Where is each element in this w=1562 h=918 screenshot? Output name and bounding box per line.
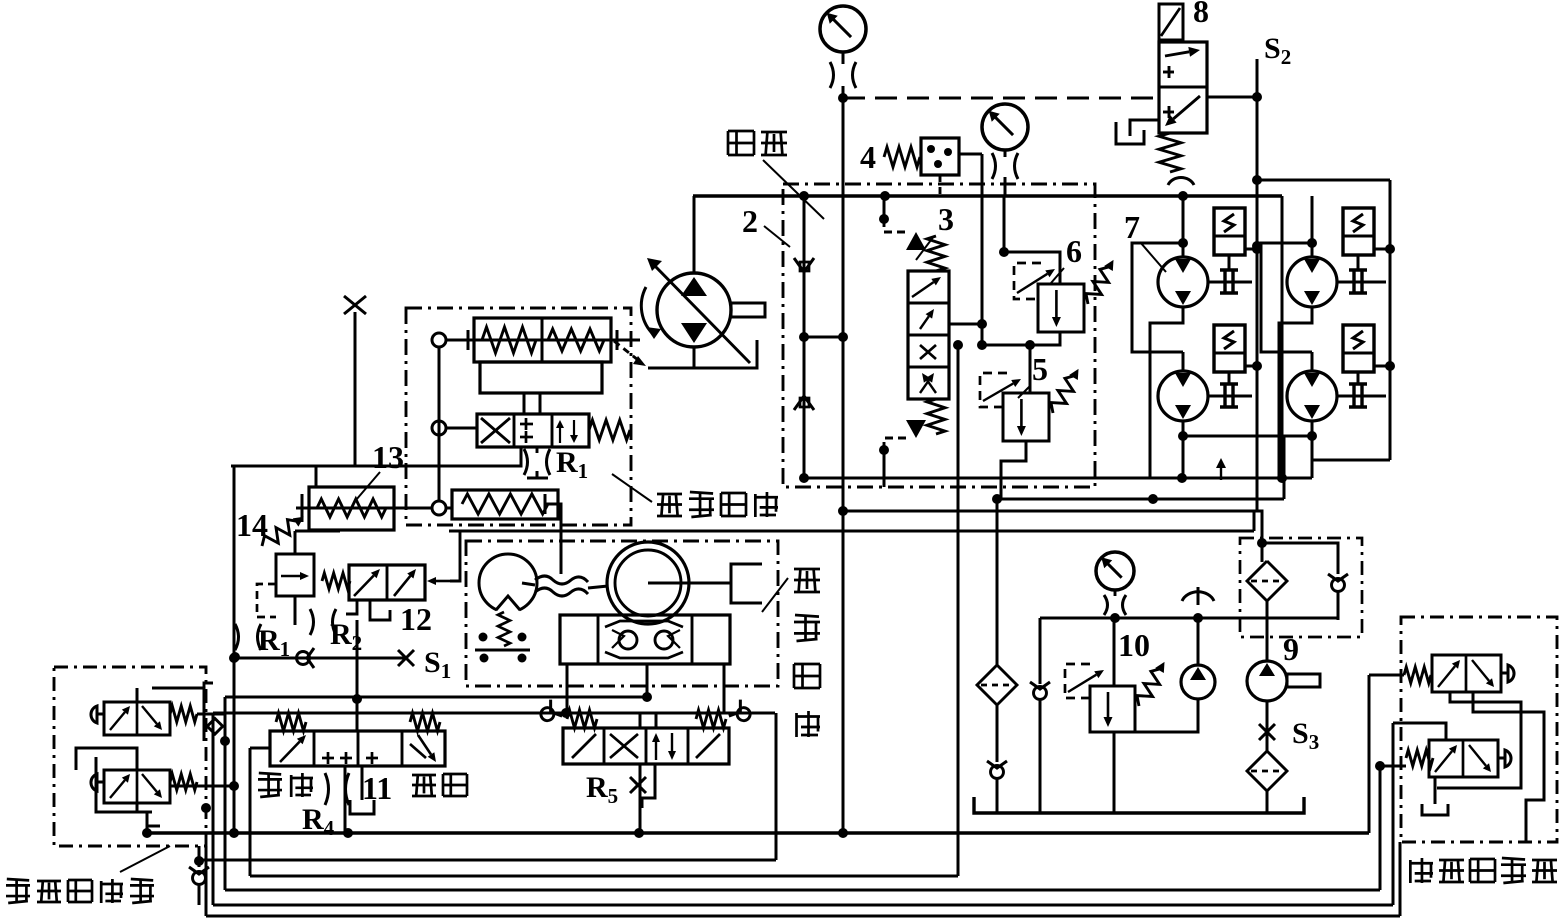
valve 3 pilot top arrow	[906, 232, 926, 250]
wire x=958 long drop	[957, 345, 960, 876]
svg-text:2: 2	[742, 203, 758, 239]
right motor pair bypass loop	[1261, 243, 1312, 352]
left box check diamond	[207, 719, 223, 735]
check valve line x=804 upper check	[803, 196, 806, 480]
wire right bus x=1390 down	[1389, 232, 1392, 460]
servo pump circle	[479, 554, 537, 612]
wire valve 6 bottom	[1030, 332, 1060, 345]
pivot link line	[439, 339, 640, 342]
tank line	[974, 797, 1304, 813]
left brake bars y282	[1228, 255, 1231, 270]
left motor B	[1158, 371, 1208, 421]
wire y=499 bus	[997, 498, 1284, 501]
valve 8 breather	[1168, 177, 1194, 185]
right brake bars y282	[1357, 255, 1360, 270]
right valve 1 body	[1432, 655, 1501, 692]
valve 3 bottom spring	[927, 399, 945, 434]
wire filter to pump9	[1266, 601, 1269, 661]
svg-text:10: 10	[1118, 627, 1150, 663]
wire pilot line y=697	[225, 696, 647, 699]
wire bus y=833	[148, 831, 1369, 834]
wire branch x=1282 down	[1281, 196, 1284, 478]
wire 1254-1262 jog to filter	[1253, 511, 1256, 531]
pressure switch 4 body	[921, 138, 959, 175]
wire right bus corner	[1312, 460, 1390, 478]
R5 drain bracket	[642, 764, 668, 813]
right motor B	[1287, 371, 1337, 421]
left valve 2 spring	[170, 774, 197, 790]
right valve 2 frame	[1393, 723, 1446, 740]
wires left box to right	[197, 713, 225, 716]
left motor line y396	[1208, 395, 1252, 398]
check symbol right on y=713	[729, 700, 755, 726]
relief valve 6 pilot bracket	[1014, 263, 1041, 299]
shuttle valve assembly	[560, 615, 730, 664]
right brake bars y396	[1357, 372, 1360, 384]
wire aux pump down	[1114, 699, 1198, 732]
pilot dashed line to valve 8	[843, 97, 1158, 100]
left motor B top stem	[1182, 352, 1185, 371]
CJK label zuoyekong anniu (left button)	[15, 879, 18, 903]
squeeze R4	[325, 773, 329, 805]
left valve 2 wires	[137, 803, 147, 812]
wire pivot to feedback	[446, 507, 452, 510]
check valve lower on 997	[987, 761, 1007, 779]
left valve 2 body	[104, 770, 170, 803]
wire S2 vertical	[1256, 59, 1259, 511]
wire x=213 riser	[212, 713, 215, 905]
CJK label fa-zu (valve group)	[727, 131, 730, 155]
wire S2 top-right branch	[1257, 179, 1390, 182]
svg-text:6: 6	[1066, 233, 1082, 269]
wire bus y=860	[200, 859, 776, 862]
operating mechanism enclosure	[466, 541, 778, 686]
wire S1 line	[234, 657, 406, 660]
check glyph on left riser	[189, 867, 209, 885]
right motor B top stem	[1311, 352, 1314, 371]
valve group enclosure box	[783, 184, 1095, 487]
plugged port X top-left	[344, 296, 366, 314]
element spring left	[482, 327, 536, 353]
wire brake valves junction dots	[1252, 244, 1262, 254]
governor measuring element body	[474, 318, 611, 362]
valve R5 body	[563, 728, 729, 764]
relief valve 6 spring	[1082, 256, 1120, 307]
wire through 13	[296, 507, 432, 510]
breather symbol	[1182, 592, 1214, 601]
right motor line y396	[1337, 395, 1386, 398]
wire valve3 bottom to box	[883, 450, 886, 487]
wire valve 5 bottom	[1001, 441, 1026, 499]
wire motor bus y=478	[1150, 477, 1312, 480]
right motor A bottom jog	[1279, 307, 1312, 478]
wire motor bottom bus y=436	[1183, 435, 1312, 438]
wire pilot line y=713	[213, 712, 775, 715]
governor pilot valve spring	[589, 420, 630, 440]
wire valve drain to left	[231, 447, 521, 466]
wire bus y=905	[213, 904, 1393, 907]
wire main supply line y=196	[693, 194, 1282, 197]
wire switch 4 dash drop	[939, 175, 942, 196]
left valve 1 button	[97, 713, 104, 716]
right valve 2 body	[1429, 740, 1498, 777]
pressure gauge G1	[820, 6, 866, 52]
left button enclosure	[54, 667, 206, 846]
check valve line x=804 lower check	[794, 396, 814, 410]
wire to upper valve spring	[1369, 674, 1404, 677]
left motor pair top stem	[1182, 196, 1185, 258]
squeeze R1 left	[235, 624, 239, 650]
wire y=511 bus	[843, 510, 1256, 513]
right motor pair top stem	[1311, 196, 1314, 258]
wire pump outlet up	[693, 196, 696, 273]
relief valve 5 spring	[1047, 365, 1085, 416]
squeeze R2	[310, 609, 314, 635]
wire valve 6 top	[1004, 252, 1060, 284]
wire aux gauge node	[1114, 614, 1117, 618]
svg-text:3: 3	[938, 201, 954, 237]
wire lower valve left port	[1381, 765, 1406, 768]
pivot bar vertical	[438, 347, 441, 501]
valve R5 left spring	[567, 710, 597, 728]
right motor line y282	[1337, 281, 1386, 284]
svg-text:4: 4	[860, 139, 876, 175]
left brake valve y208	[1214, 208, 1245, 255]
svg-text:8: 8	[1193, 0, 1209, 29]
flush arrow up	[1220, 468, 1222, 480]
wire x=776 riser	[775, 713, 778, 860]
pressure gauge G2	[982, 104, 1028, 150]
governor enclosure box	[406, 308, 631, 525]
wire valve3 right ports	[949, 323, 982, 326]
variable displacement pump 1	[657, 273, 731, 347]
wire valve 10 stem	[1113, 618, 1116, 686]
wire x=206 riser	[205, 846, 208, 916]
aux gauge	[1096, 552, 1134, 590]
wire 13 vert left	[315, 466, 318, 487]
right motor A	[1287, 257, 1337, 307]
valve 12 body	[349, 565, 425, 600]
right valve 2 button	[1498, 757, 1505, 760]
pump 1 swash dashed link	[614, 341, 638, 360]
load bracket	[731, 564, 762, 603]
element side brackets	[467, 330, 470, 350]
flexible coupling waves	[535, 576, 588, 584]
wire valve 8 out	[1207, 96, 1257, 99]
flywheel inner	[615, 550, 681, 616]
wire pivot to valve	[446, 427, 477, 430]
wire x=997 drop from y=499	[996, 499, 999, 665]
wire gauge G1 drop line x=843	[842, 86, 845, 833]
relief valve 10 pilot	[1065, 664, 1090, 698]
svg-text:11: 11	[362, 770, 392, 806]
adjust arrow 14	[258, 511, 308, 552]
filter F1 diamond	[1247, 561, 1287, 601]
left motor B bottom stem	[1182, 421, 1185, 436]
element lower body	[480, 362, 602, 393]
relief valve 5 body	[1003, 393, 1049, 441]
svg-text:12: 12	[400, 601, 432, 637]
governor feedback spring cyl	[452, 490, 558, 519]
left motor line y282	[1208, 281, 1252, 284]
pump 1 swashplate triangle	[648, 340, 757, 368]
suction filter under pump9	[1247, 751, 1287, 791]
valve 3 pilot bottom arrow	[906, 420, 926, 438]
pump 9	[1247, 661, 1287, 701]
check symbol left on y=713	[536, 700, 562, 726]
CJK label qianzai (underload)	[267, 773, 270, 797]
right button enclosure	[1401, 617, 1557, 842]
valve 11 left spring	[276, 713, 306, 731]
damper 13 outer box	[309, 487, 394, 530]
wire op box right port	[723, 664, 726, 713]
pump 1 drive shaft	[731, 303, 765, 317]
left valve drain T	[147, 812, 160, 826]
CJK label tiaosu jigou (governor)	[657, 493, 682, 496]
wire right bus vertical x=1390	[1389, 180, 1392, 246]
wire bus y=916	[206, 915, 1400, 918]
relief valve 10 spring	[1133, 658, 1171, 709]
valve 8 spring below	[1159, 133, 1181, 172]
left motor pair bypass loop	[1132, 243, 1183, 352]
wire valve 11 left port	[250, 747, 270, 750]
wire x=225 riser	[224, 697, 227, 890]
governor pilot valve body	[477, 414, 589, 447]
valve 12 pilot arrow right	[436, 580, 450, 583]
CJK label caozong jigou (vertical)	[794, 568, 820, 571]
right motor B bottom stem	[1311, 421, 1314, 436]
wire switch 4 to line	[959, 153, 982, 156]
pivot circles	[432, 333, 446, 347]
squeeze R1 under valve	[524, 449, 528, 475]
squeeze coupling below G1	[830, 62, 834, 88]
damper 13 spring	[317, 499, 386, 517]
left valve 1 spring	[170, 706, 197, 722]
pressure switch 4 spring	[884, 147, 920, 167]
svg-text:13: 13	[372, 439, 404, 475]
valve 3 top spring	[927, 236, 945, 271]
svg-text:9: 9	[1283, 631, 1299, 667]
plugged X R5	[630, 777, 646, 793]
left valve 2 frame	[96, 757, 152, 812]
valve 11 right spring	[410, 713, 440, 731]
right valve 2 spring	[1406, 750, 1433, 766]
flywheel shaft	[648, 582, 731, 585]
right drain bracket	[1422, 804, 1448, 815]
relief valve 5 pilot bracket	[980, 373, 1007, 407]
servo dots	[479, 633, 488, 642]
filter enclosure dash box	[1240, 538, 1362, 637]
squeeze under aux gauge	[1104, 595, 1108, 615]
wire x=234 long vertical	[233, 466, 236, 833]
drain T under valve	[527, 477, 548, 480]
aux pump left	[1181, 665, 1215, 699]
valve 14 pilot dash	[257, 584, 276, 617]
servo spring below	[498, 612, 510, 646]
wire from X down	[354, 312, 357, 466]
squeeze coupling below G2	[992, 153, 996, 179]
wire op box mid port	[646, 664, 649, 697]
spring 12 left	[322, 573, 350, 589]
left valve 1 frame	[152, 688, 204, 741]
left valve 2 button	[97, 781, 104, 784]
CJK label youyekong anniu (right button)	[1409, 860, 1412, 883]
flywheel outer	[607, 542, 689, 624]
relief valve 10 body	[1090, 686, 1135, 732]
wire x=250 riser	[249, 748, 252, 876]
right valve 1 spring	[1404, 667, 1431, 683]
wire op box left port	[566, 664, 569, 713]
element stem	[524, 393, 540, 414]
right valve 1 button	[1501, 672, 1508, 675]
right brake valve y208	[1343, 208, 1374, 255]
wire 804-843 link	[804, 336, 843, 339]
valve 8 solenoid box	[1159, 4, 1183, 40]
left valve 1 body	[104, 702, 170, 735]
CJK label chaozai (overload)	[412, 774, 436, 777]
valve 11 drain	[361, 766, 364, 800]
wire y=478 bus	[804, 477, 1312, 480]
wire valve12 down to valve11	[356, 620, 359, 731]
element spring right	[548, 329, 604, 351]
wire bus y=876	[250, 875, 958, 878]
wire motor B stems to lower bus	[1182, 436, 1185, 478]
wire G2 stem	[1004, 150, 1007, 157]
left brake valve y325	[1214, 325, 1245, 372]
right valve 2 drain stem	[1434, 777, 1437, 804]
left motor A	[1158, 257, 1208, 307]
wire x=1040 drop	[1039, 618, 1042, 684]
valve 8 body	[1159, 42, 1207, 133]
wire 14 bottom	[294, 596, 297, 625]
right valve 1 wires	[1437, 692, 1521, 788]
left motor A bottom jog	[1150, 307, 1183, 478]
wire valve11 center to bus	[344, 766, 347, 833]
wire 14 top	[294, 531, 297, 554]
wire y=531 bus	[449, 530, 1254, 533]
svg-text:5: 5	[1032, 351, 1048, 387]
damper 13 side bars	[301, 494, 304, 522]
wire y=618 line	[1040, 617, 1338, 620]
valve 12 drain T	[346, 600, 357, 614]
wire right risers	[1368, 675, 1371, 833]
filter on 997 line	[977, 665, 1017, 705]
wire pump9 down	[1266, 701, 1269, 753]
relief valve 6 body	[1038, 284, 1084, 332]
check valve on 1040	[1030, 682, 1050, 700]
bypass check in filter box	[1328, 574, 1348, 592]
wire R5 right port down	[712, 764, 714, 770]
wire feedback to op box	[558, 504, 561, 574]
svg-text:7: 7	[1124, 209, 1140, 245]
valve 8 drain bracket	[1130, 120, 1159, 136]
reducing valve 14 body	[276, 554, 314, 596]
pump 9 shaft	[1287, 674, 1320, 687]
wire bus y=890	[225, 889, 1380, 892]
valve 11 body	[270, 731, 445, 766]
wire pump case drain down	[693, 347, 696, 368]
valve R5 right spring	[696, 710, 726, 728]
wire R5 ports up	[639, 713, 642, 728]
check symbol on S1 line	[297, 648, 315, 668]
wire bus x=1284	[1283, 436, 1286, 499]
valve 3 body	[908, 271, 949, 399]
wire breather stem	[1197, 618, 1200, 665]
wire x=982 drop	[981, 154, 984, 345]
plugged port X S1	[398, 650, 414, 666]
left brake bars y396	[1228, 372, 1231, 384]
wire valve 5 top	[1029, 345, 1032, 393]
plugged X S3	[1259, 724, 1275, 740]
right brake valve y325	[1343, 325, 1374, 372]
